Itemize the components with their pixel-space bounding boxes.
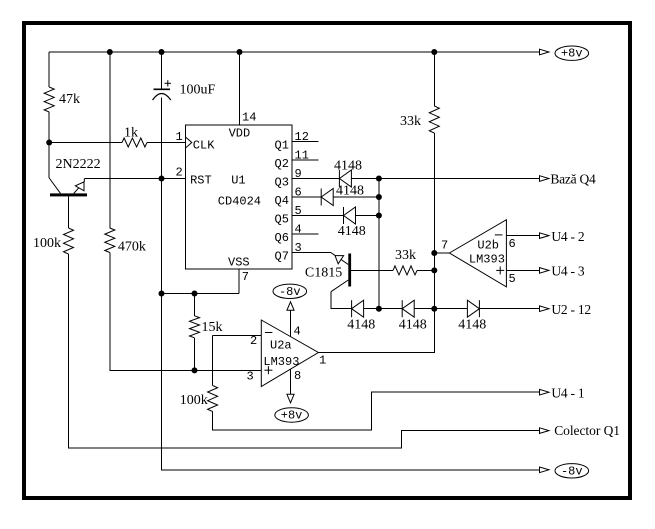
- svg-text:U4 - 2: U4 - 2: [551, 229, 584, 244]
- wire 1k left: [49, 142, 122, 144]
- node junction 15k/pin3 line: [192, 367, 198, 373]
- svg-text:-8v: -8v: [279, 285, 301, 299]
- terminal U4-2 arrow: [540, 233, 549, 239]
- resistor 470k: [105, 228, 115, 253]
- op-amp U1 CD4024 box: [186, 125, 293, 269]
- terminal -8v arrow: [540, 467, 549, 473]
- wire Q5 diode to bus: [356, 215, 379, 217]
- svg-text:Q5: Q5: [275, 212, 289, 226]
- svg-text:4148: 4148: [338, 224, 366, 239]
- U2a plus sign: [264, 369, 272, 371]
- wire 100k to colector line: [69, 254, 540, 448]
- svg-text:Bază Q4: Bază Q4: [550, 171, 596, 186]
- svg-text:12: 12: [295, 130, 309, 144]
- power -8v oval bottom: [555, 464, 589, 478]
- wire base down: [68, 196, 70, 228]
- wire 15k top: [194, 294, 196, 316]
- terminal U4-1 arrow: [540, 389, 549, 395]
- wire 33k to node: [417, 269, 434, 271]
- terminal Colector Q1 arrow: [540, 428, 549, 434]
- svg-text:100uF: 100uF: [180, 83, 216, 98]
- wire VSS horizontal: [162, 293, 240, 295]
- wire U2a pin4: [290, 310, 292, 336]
- svg-text:8: 8: [294, 369, 301, 383]
- wire U2a pin2: [213, 334, 262, 336]
- wire 33k top: [433, 52, 435, 106]
- node junction top rail / 470k: [107, 49, 113, 55]
- diode D1 4148 Q3: [338, 170, 340, 187]
- resistor 47k: [44, 87, 54, 112]
- terminal Baza Q4 arrow: [540, 176, 549, 182]
- svg-text:4148: 4148: [399, 318, 427, 333]
- diode D3 4148 Q5: [343, 207, 345, 224]
- svg-text:33k: 33k: [395, 248, 416, 263]
- svg-text:Q4: Q4: [275, 194, 289, 208]
- svg-text:47k: 47k: [59, 92, 80, 107]
- svg-text:Q7: Q7: [275, 249, 289, 263]
- wire D4 to bus: [364, 308, 379, 310]
- svg-text:2: 2: [250, 334, 257, 348]
- wire Q6 stub: [292, 233, 319, 235]
- diode D6 4148: [478, 300, 480, 317]
- diode D4 4148: [351, 300, 353, 317]
- node junction Q4 bus: [376, 194, 382, 200]
- wire pin2 down: [212, 335, 214, 385]
- resistor 15k: [190, 316, 200, 338]
- node junction top rail / C1: [159, 49, 165, 55]
- wire C1815 to diode row: [331, 292, 352, 309]
- svg-text:1: 1: [176, 130, 183, 144]
- capacitor 100uF: [154, 88, 171, 90]
- wire Q1 stub: [292, 141, 319, 143]
- svg-text:2: 2: [176, 166, 183, 180]
- pin CLK input wedge: [186, 137, 192, 148]
- svg-text:U1: U1: [231, 174, 245, 188]
- wire 47k bottom: [48, 112, 50, 143]
- svg-text:Q3: Q3: [275, 175, 289, 189]
- svg-text:15k: 15k: [202, 320, 223, 335]
- terminal U2-12 arrow: [540, 306, 549, 312]
- svg-text:14: 14: [242, 111, 256, 125]
- wire C1 bottom to RST node: [161, 98, 163, 179]
- resistor 100k base: [64, 228, 74, 254]
- U2b plus sign: [496, 269, 504, 271]
- svg-text:+8v: +8v: [281, 409, 303, 423]
- svg-text:LM393: LM393: [469, 253, 505, 267]
- svg-text:Q6: Q6: [275, 231, 289, 245]
- wire 47k top: [48, 52, 50, 87]
- op-amp U2b LM393 triangle: [449, 220, 506, 287]
- wire 470k top: [109, 52, 111, 228]
- transistor Q1 2N2222 emitter arrow: [75, 182, 84, 191]
- wire Q3 diode to bus: [351, 178, 379, 180]
- transistor Q2 C1815 collector lead: [331, 280, 349, 292]
- wire Q2 stub: [292, 159, 319, 161]
- power +8v oval: [555, 46, 589, 60]
- node junction Q3 bus: [376, 176, 382, 182]
- svg-text:RST: RST: [190, 174, 212, 188]
- svg-text:U4 - 3: U4 - 3: [551, 264, 584, 279]
- wire C1 node down: [161, 179, 163, 294]
- svg-text:1k: 1k: [124, 126, 138, 141]
- node junction C1/RST/emitter: [159, 176, 165, 182]
- node junction 33k/U2b pin7: [431, 250, 437, 256]
- svg-text:100k: 100k: [33, 236, 61, 251]
- op-amp U2a LM393 triangle: [261, 320, 318, 387]
- wire 1k to CLK: [147, 142, 186, 144]
- svg-text:3: 3: [247, 370, 254, 384]
- power -8v oval U2a: [273, 284, 307, 298]
- svg-text:C1815: C1815: [305, 266, 342, 281]
- svg-text:6: 6: [509, 237, 516, 251]
- node junction top rail / 33k: [431, 49, 437, 55]
- U2b minus sign: [495, 234, 503, 236]
- power +8v oval U2a: [275, 408, 309, 422]
- node junction 33k/base resistor: [431, 267, 437, 273]
- svg-text:33k: 33k: [400, 114, 421, 129]
- svg-text:Q2: Q2: [275, 157, 289, 171]
- svg-text:7: 7: [242, 270, 249, 284]
- svg-text:5: 5: [509, 272, 516, 286]
- wire Q7 to Q2 base: [292, 252, 331, 254]
- node junction top rail / VDD: [237, 49, 243, 55]
- wire Q5 to diode: [292, 215, 344, 217]
- wire U2b pin5 out: [506, 269, 539, 271]
- resistor 100k feedback: [208, 386, 218, 412]
- wire base to 33k: [351, 269, 393, 271]
- transistor Q2 C1815 emitter arrow: [335, 256, 344, 264]
- node junction Q5 bus: [376, 213, 382, 219]
- svg-text:4: 4: [295, 223, 302, 237]
- wire -8v bottom line: [162, 294, 540, 470]
- node junction VSS/C1 line: [159, 291, 165, 297]
- svg-text:Colector Q1: Colector Q1: [554, 423, 620, 438]
- wire Q1 collector: [48, 143, 50, 179]
- svg-text:U2 - 12: U2 - 12: [551, 302, 591, 317]
- wire 33k bottom: [318, 133, 434, 353]
- U2a pin8 arrow: [287, 394, 294, 403]
- terminal U4-3 arrow: [540, 268, 549, 274]
- resistor 1k: [122, 138, 147, 147]
- svg-text:CLK: CLK: [193, 139, 215, 153]
- transistor Q2 C1815 base bar: [348, 254, 351, 287]
- wire Baza Q4 line: [379, 178, 540, 180]
- diode D5 4148: [401, 300, 403, 317]
- transistor Q1 2N2222 emitter lead: [74, 179, 85, 194]
- node junction 33k line bottom: [431, 306, 437, 312]
- transistor Q1 2N2222 collector lead: [49, 178, 60, 193]
- U2a pin4 arrow: [287, 302, 294, 311]
- svg-text:100k: 100k: [180, 393, 208, 408]
- wire D6 to U2-12: [479, 308, 539, 310]
- svg-text:-8v: -8v: [561, 464, 583, 478]
- U2a minus sign: [265, 332, 273, 334]
- svg-text:4: 4: [294, 325, 301, 339]
- svg-text:Q1: Q1: [275, 138, 289, 152]
- wire 470k bottom to pin3 line: [110, 253, 261, 371]
- wire diode bus: [378, 179, 380, 309]
- wire Q4 diode to bus: [333, 196, 379, 198]
- svg-text:470k: 470k: [118, 240, 146, 255]
- svg-text:7: 7: [441, 239, 448, 253]
- svg-text:11: 11: [295, 149, 309, 163]
- svg-text:+8v: +8v: [561, 47, 583, 61]
- svg-text:CD4024: CD4024: [218, 195, 261, 209]
- diode D2 4148 Q4: [320, 189, 322, 206]
- node junction bus bottom: [376, 306, 382, 312]
- wire U2b pin6 out: [506, 235, 539, 237]
- svg-text:2N2222: 2N2222: [56, 157, 101, 172]
- node junction 47k/1k/Q1 collector: [46, 140, 52, 146]
- resistor 33k pullup: [429, 106, 439, 133]
- svg-text:VSS: VSS: [228, 256, 250, 270]
- wire bus to D5: [379, 308, 402, 310]
- transistor Q2 C1815 emitter lead: [331, 253, 349, 265]
- wire VSS down: [238, 269, 240, 294]
- wire Q4 to diode: [292, 196, 321, 198]
- wire 100k to U4-1: [213, 392, 540, 430]
- svg-text:4148: 4148: [336, 184, 364, 199]
- wire Q3 to diode: [292, 178, 339, 180]
- wire +8v top rail: [49, 51, 539, 53]
- svg-text:U2a: U2a: [270, 339, 292, 353]
- wire C1 top: [161, 52, 163, 89]
- svg-text:VDD: VDD: [229, 127, 251, 141]
- svg-text:4148: 4148: [334, 159, 362, 174]
- svg-text:U2b: U2b: [477, 239, 499, 253]
- wire U2a pin8: [290, 369, 292, 394]
- svg-text:4148: 4148: [458, 318, 486, 333]
- node junction VSS/15k: [192, 291, 198, 297]
- wire VDD: [239, 52, 241, 125]
- power +8v terminal arrow: [540, 49, 549, 55]
- transistor Q1 2N2222 base bar: [50, 193, 87, 196]
- wire D5 to 33k line: [414, 308, 467, 310]
- wire emitter to RST: [84, 178, 185, 180]
- svg-text:U4 - 1: U4 - 1: [551, 386, 584, 401]
- svg-text:1: 1: [319, 354, 326, 368]
- resistor 33k base: [393, 266, 417, 275]
- svg-text:4148: 4148: [347, 318, 375, 333]
- wire U2b pin7: [434, 252, 449, 254]
- wire 15k bottom: [194, 338, 196, 371]
